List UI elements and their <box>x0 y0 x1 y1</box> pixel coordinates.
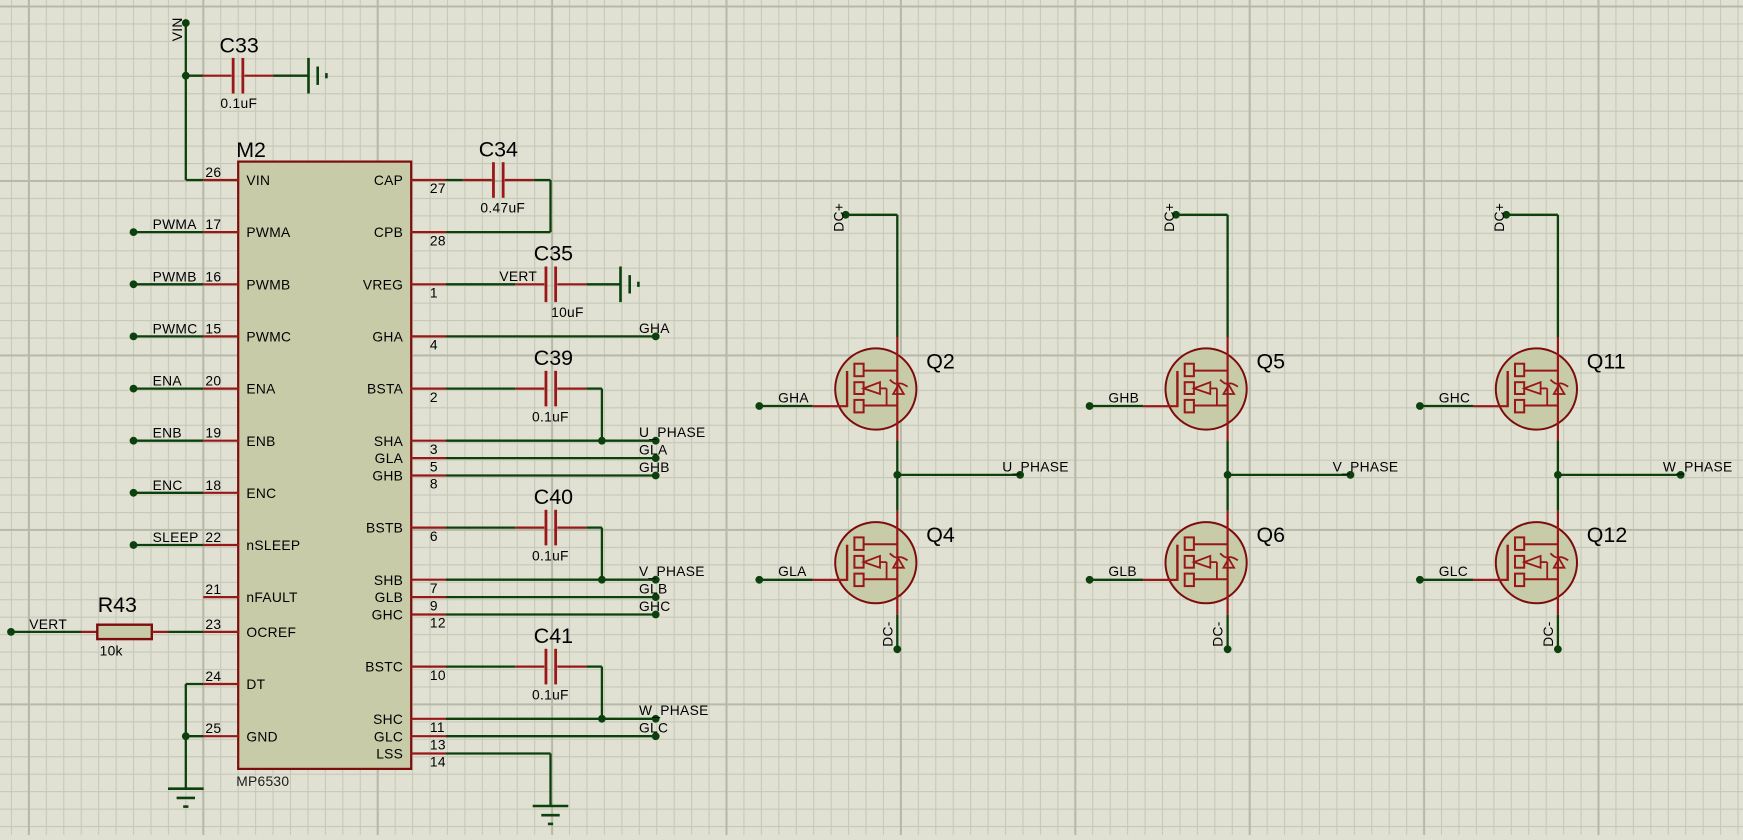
transistor Q4 (N-MOSFET) <box>813 511 917 615</box>
pin 7 (SHB) stub <box>410 579 446 581</box>
node GLA terminal <box>755 576 763 584</box>
svg-text:GHC: GHC <box>639 599 671 614</box>
wire BST to C40 <box>446 526 515 528</box>
wire C34 loop down <box>549 180 551 232</box>
svg-text:V_PHASE: V_PHASE <box>639 564 705 579</box>
pin 28 (CPB) stub <box>410 231 446 233</box>
pin 3 (SHA) stub <box>410 440 446 442</box>
transistor Q12 (N-MOSFET) <box>1473 511 1577 615</box>
svg-text:DC-: DC- <box>880 621 895 646</box>
node ENA terminal <box>130 385 138 393</box>
node GLB terminal <box>1086 576 1094 584</box>
svg-text:5: 5 <box>430 459 438 474</box>
wire C34 right <box>534 179 551 181</box>
svg-text:SLEEP: SLEEP <box>153 530 199 545</box>
pin 14 (LSS) stub <box>410 752 446 754</box>
pin 17 (PWMA) stub <box>203 231 239 233</box>
node GLC <box>652 732 660 740</box>
pin 23 (OCREF) stub <box>203 631 239 633</box>
svg-text:PWMB: PWMB <box>153 269 197 284</box>
wire SLEEP <box>134 544 204 546</box>
svg-text:ENC: ENC <box>153 478 183 493</box>
node GHC terminal <box>1416 402 1424 410</box>
wire C39 down to SH row <box>601 389 603 441</box>
svg-text:0.47uF: 0.47uF <box>480 201 525 216</box>
node DC- terminal (Q12) <box>1554 645 1562 653</box>
svg-text:25: 25 <box>205 721 221 736</box>
svg-text:PWMC: PWMC <box>153 321 198 336</box>
half-bridge column Q11/Q12 <box>1416 203 1732 653</box>
svg-text:SHC: SHC <box>373 712 403 727</box>
svg-text:C40: C40 <box>534 485 573 509</box>
svg-text:VERT: VERT <box>29 617 67 632</box>
wire Q6 source to DC- <box>1226 615 1228 650</box>
node GHB terminal <box>1086 402 1094 410</box>
pin 24 (DT) stub <box>203 683 239 685</box>
wire Q4 source to DC- <box>896 615 898 650</box>
node GLB <box>652 593 660 601</box>
svg-text:GLB: GLB <box>1108 564 1137 579</box>
svg-text:GLB: GLB <box>375 590 404 605</box>
wire BST to C41 <box>446 665 515 667</box>
wire Q11 source to Q12 drain <box>1557 441 1559 511</box>
svg-text:Q12: Q12 <box>1587 523 1627 547</box>
IC U-M2 MP6530 body <box>238 162 411 769</box>
wire GLB to gate <box>1090 579 1144 581</box>
wire GHA <box>446 335 656 337</box>
svg-text:DC-: DC- <box>1541 621 1556 646</box>
half-bridge column Q5/Q6 <box>1086 203 1399 653</box>
svg-text:GLC: GLC <box>374 729 403 744</box>
svg-text:18: 18 <box>205 478 221 493</box>
capacitor C35 <box>515 267 586 303</box>
svg-text:SHB: SHB <box>374 573 403 588</box>
wire U_PHASE <box>446 440 656 442</box>
svg-text:Q6: Q6 <box>1257 523 1286 547</box>
node V_PHASE <box>652 576 660 584</box>
svg-text:DC+: DC+ <box>1492 203 1507 232</box>
svg-text:6: 6 <box>430 529 438 544</box>
node DC- terminal (Q4) <box>893 645 901 653</box>
svg-text:U_PHASE: U_PHASE <box>1002 459 1069 474</box>
pin 18 (ENC) stub <box>203 492 239 494</box>
wire PWMA <box>134 231 204 233</box>
svg-text:23: 23 <box>205 617 221 632</box>
node W_PHASE <box>652 715 660 723</box>
node PWMA terminal <box>130 228 138 236</box>
svg-text:GLA: GLA <box>778 564 807 579</box>
svg-text:Q4: Q4 <box>926 523 955 547</box>
capacitor C41 <box>515 649 586 685</box>
wire GHB <box>446 474 656 476</box>
wire BST to C39 <box>446 387 515 389</box>
wire ENA <box>134 387 204 389</box>
svg-text:12: 12 <box>430 616 446 631</box>
pin 22 (nSLEEP) stub <box>203 544 239 546</box>
wire ENB <box>134 440 204 442</box>
svg-text:GHB: GHB <box>639 460 670 475</box>
svg-text:10uF: 10uF <box>551 305 584 320</box>
transistor Q11 (N-MOSFET) <box>1473 337 1577 441</box>
svg-text:Q2: Q2 <box>926 349 955 373</box>
svg-text:nSLEEP: nSLEEP <box>246 538 300 553</box>
wire VIN to pin 26 <box>186 179 204 181</box>
svg-text:0.1uF: 0.1uF <box>532 687 569 702</box>
pin 26 (VIN) stub <box>203 179 239 181</box>
node U_PHASE <box>652 437 660 445</box>
capacitor C33 <box>203 58 274 94</box>
svg-text:W_PHASE: W_PHASE <box>639 703 709 718</box>
wire DC+ down to Q11 drain <box>1557 215 1559 337</box>
svg-text:C34: C34 <box>479 138 518 162</box>
svg-text:VIN: VIN <box>246 173 270 188</box>
svg-text:24: 24 <box>205 669 221 684</box>
svg-text:DC+: DC+ <box>832 203 847 232</box>
svg-text:GLA: GLA <box>375 451 404 466</box>
junction V_PHASE <box>1224 471 1232 479</box>
svg-text:ENC: ENC <box>246 486 276 501</box>
wire R43 to pin 23 <box>168 631 203 633</box>
svg-text:GHA: GHA <box>372 330 403 345</box>
node GLA <box>652 454 660 462</box>
svg-text:ENA: ENA <box>246 382 276 397</box>
wire GHB to gate <box>1090 405 1144 407</box>
pin 15 (PWMC) stub <box>203 335 239 337</box>
node VIN terminal <box>182 19 190 27</box>
pin 6 (BSTB) stub <box>410 526 446 528</box>
svg-text:GND: GND <box>246 729 278 744</box>
transistor Q5 (N-MOSFET) <box>1143 337 1247 441</box>
svg-text:DC-: DC- <box>1211 621 1226 646</box>
svg-text:20: 20 <box>205 374 221 389</box>
ground (right-facing) after C33 <box>309 58 327 94</box>
svg-text:0.1uF: 0.1uF <box>220 96 257 111</box>
wire PWMC <box>134 335 204 337</box>
wire DC+ horizontal <box>1506 214 1558 216</box>
svg-text:GLC: GLC <box>639 721 668 736</box>
svg-text:ENB: ENB <box>246 434 275 449</box>
capacitor C40 <box>515 510 586 546</box>
node PWMC terminal <box>130 333 138 341</box>
svg-text:ENB: ENB <box>153 426 182 441</box>
svg-text:GLB: GLB <box>639 582 668 597</box>
wire GHC to gate <box>1420 405 1474 407</box>
svg-text:2: 2 <box>430 390 438 405</box>
junction U_PHASE <box>893 471 901 479</box>
pin 19 (ENB) stub <box>203 440 239 442</box>
pin 16 (PWMB) stub <box>203 283 239 285</box>
svg-text:BSTA: BSTA <box>367 382 404 397</box>
svg-text:GHC: GHC <box>372 608 404 623</box>
node DC+ terminal (Q2) <box>842 211 850 219</box>
svg-text:0.1uF: 0.1uF <box>532 409 569 424</box>
wire VREG to C35 <box>446 283 515 285</box>
resistor R43 <box>81 625 168 639</box>
svg-text:LSS: LSS <box>376 747 403 762</box>
wire CAP pin to C34 <box>446 179 463 181</box>
pin 4 (GHA) stub <box>410 335 446 337</box>
node VERT terminal <box>7 628 15 636</box>
capacitor C34 <box>463 162 534 198</box>
pin 20 (ENA) stub <box>203 388 239 390</box>
node U_PHASE terminal <box>1016 471 1024 479</box>
wire GLC to gate <box>1420 579 1474 581</box>
svg-text:27: 27 <box>430 181 446 196</box>
pin 11 (SHC) stub <box>410 718 446 720</box>
svg-text:10: 10 <box>430 668 446 683</box>
wire DC+ horizontal <box>846 214 898 216</box>
pin 5 (GLA) stub <box>410 457 446 459</box>
node W_PHASE terminal <box>1677 471 1685 479</box>
wire VERT to R43 <box>11 631 81 633</box>
ground (right-facing) after C35 <box>621 267 639 303</box>
node GHB <box>652 472 660 480</box>
svg-text:9: 9 <box>430 598 438 613</box>
pin 9 (GLB) stub <box>410 596 446 598</box>
svg-text:VERT: VERT <box>499 269 537 284</box>
wire V_PHASE <box>446 579 656 581</box>
svg-text:PWMC: PWMC <box>246 330 291 345</box>
pin 21 (nFAULT) stub <box>203 596 239 598</box>
wire PWMB <box>134 283 204 285</box>
svg-text:GHA: GHA <box>639 321 670 336</box>
svg-text:GHB: GHB <box>372 469 403 484</box>
wire GND to pin 25 <box>186 735 204 737</box>
svg-text:GHB: GHB <box>1108 390 1139 405</box>
svg-text:15: 15 <box>205 321 221 336</box>
svg-text:C33: C33 <box>220 33 259 57</box>
svg-text:21: 21 <box>205 582 221 597</box>
svg-text:16: 16 <box>205 269 221 284</box>
svg-text:VREG: VREG <box>363 277 403 292</box>
node V_PHASE terminal <box>1347 471 1355 479</box>
svg-text:26: 26 <box>205 165 221 180</box>
wire GHA to gate <box>759 405 813 407</box>
wire GLA to gate <box>759 579 813 581</box>
svg-text:14: 14 <box>430 755 446 770</box>
svg-text:V_PHASE: V_PHASE <box>1333 459 1399 474</box>
svg-text:CAP: CAP <box>374 173 403 188</box>
svg-text:U_PHASE: U_PHASE <box>639 425 706 440</box>
node DC- terminal (Q6) <box>1224 645 1232 653</box>
svg-text:DC+: DC+ <box>1162 203 1177 232</box>
wire LSS down <box>549 754 551 806</box>
wire C40 right <box>586 526 602 528</box>
junction C39/SH <box>598 437 606 445</box>
ground (down) below GND pin <box>168 789 204 807</box>
svg-text:GHC: GHC <box>1439 390 1471 405</box>
wire V_PHASE <box>1228 474 1351 476</box>
pin 13 (GLC) stub <box>410 735 446 737</box>
wire C35 to ground <box>586 283 619 285</box>
wire C33 to ground <box>274 75 308 77</box>
svg-text:19: 19 <box>205 426 221 441</box>
svg-text:ENA: ENA <box>153 374 183 389</box>
svg-text:DT: DT <box>246 677 265 692</box>
svg-text:nFAULT: nFAULT <box>246 590 298 605</box>
wire Q2 source to Q4 drain <box>896 441 898 511</box>
wire GHC <box>446 613 656 615</box>
half-bridge column Q2/Q4 <box>755 203 1068 653</box>
node PWMB terminal <box>130 280 138 288</box>
junction C40/SH <box>598 576 606 584</box>
svg-text:PWMB: PWMB <box>246 277 290 292</box>
svg-text:C35: C35 <box>534 242 573 266</box>
pin 10 (BSTC) stub <box>410 665 446 667</box>
svg-text:11: 11 <box>430 720 445 735</box>
svg-text:Q11: Q11 <box>1587 349 1626 373</box>
node SLEEP terminal <box>130 541 138 549</box>
wire DT <box>186 683 204 685</box>
svg-text:M2: M2 <box>236 138 266 162</box>
wire GLB <box>446 596 656 598</box>
svg-text:MP6530: MP6530 <box>236 774 289 789</box>
svg-text:OCREF: OCREF <box>246 625 296 640</box>
svg-text:10k: 10k <box>100 643 123 658</box>
wire GND to ground <box>185 736 187 788</box>
svg-text:C39: C39 <box>534 346 573 370</box>
pin 27 (CAP) stub <box>410 179 446 181</box>
pin 2 (BSTA) stub <box>410 388 446 390</box>
svg-text:BSTB: BSTB <box>366 521 403 536</box>
junction W_PHASE <box>1554 471 1562 479</box>
pin 1 (VREG) stub <box>410 283 446 285</box>
wire VIN to C33 <box>186 75 203 77</box>
wire loop to CPB pin <box>446 231 551 233</box>
wire DC+ down to Q2 drain <box>896 215 898 337</box>
svg-text:R43: R43 <box>98 593 137 617</box>
svg-text:C41: C41 <box>534 624 573 648</box>
wire C39 right <box>586 387 602 389</box>
node DC+ terminal (Q11) <box>1502 211 1510 219</box>
junction DT/GND <box>182 732 190 740</box>
ground (down) below LSS <box>533 806 569 824</box>
wire W_PHASE <box>1558 474 1681 476</box>
junction C41/SH <box>598 715 606 723</box>
node GHA <box>652 333 660 341</box>
wire LSS <box>446 752 551 754</box>
wire GLA <box>446 457 656 459</box>
node ENB terminal <box>130 437 138 445</box>
svg-text:PWMA: PWMA <box>246 225 291 240</box>
node DC+ terminal (Q5) <box>1172 211 1180 219</box>
svg-text:CPB: CPB <box>374 225 403 240</box>
svg-text:22: 22 <box>205 530 221 545</box>
svg-text:8: 8 <box>430 477 438 492</box>
pin 25 (GND) stub <box>203 735 239 737</box>
svg-text:VIN: VIN <box>170 17 185 41</box>
svg-text:GLC: GLC <box>1439 564 1468 579</box>
wire W_PHASE <box>446 718 656 720</box>
wire DT down to GND <box>185 684 187 736</box>
svg-text:GLA: GLA <box>639 443 668 458</box>
svg-text:28: 28 <box>430 233 446 248</box>
wire DC+ down to Q5 drain <box>1226 215 1228 337</box>
svg-text:1: 1 <box>430 286 438 301</box>
wire C41 down to SH row <box>601 667 603 719</box>
wire C40 down to SH row <box>601 528 603 580</box>
transistor Q6 (N-MOSFET) <box>1143 511 1247 615</box>
wire Q5 source to Q6 drain <box>1226 441 1228 511</box>
pin 8 (GHB) stub <box>410 474 446 476</box>
wire Q12 source to DC- <box>1557 615 1559 650</box>
wire GLC <box>446 735 656 737</box>
wire ENC <box>134 492 204 494</box>
svg-text:3: 3 <box>430 442 438 457</box>
svg-text:Q5: Q5 <box>1257 349 1286 373</box>
svg-text:PWMA: PWMA <box>153 217 198 232</box>
junction VIN / C33 <box>182 72 190 80</box>
node GLC terminal <box>1416 576 1424 584</box>
wire U_PHASE <box>897 474 1020 476</box>
wire DC+ horizontal <box>1176 214 1228 216</box>
node ENC terminal <box>130 489 138 497</box>
wire VIN vertical <box>185 23 187 180</box>
transistor Q2 (N-MOSFET) <box>813 337 917 441</box>
svg-text:7: 7 <box>430 581 438 596</box>
svg-text:17: 17 <box>205 217 221 232</box>
svg-text:4: 4 <box>430 338 438 353</box>
svg-text:W_PHASE: W_PHASE <box>1663 459 1733 474</box>
svg-text:GHA: GHA <box>778 390 809 405</box>
capacitor C39 <box>515 371 586 407</box>
svg-text:SHA: SHA <box>374 434 404 449</box>
wire C41 right <box>586 665 602 667</box>
node GHA terminal <box>755 402 763 410</box>
svg-text:BSTC: BSTC <box>365 660 403 675</box>
node GHC <box>652 611 660 619</box>
pin 12 (GHC) stub <box>410 613 446 615</box>
svg-text:0.1uF: 0.1uF <box>532 548 569 563</box>
svg-text:13: 13 <box>430 737 446 752</box>
